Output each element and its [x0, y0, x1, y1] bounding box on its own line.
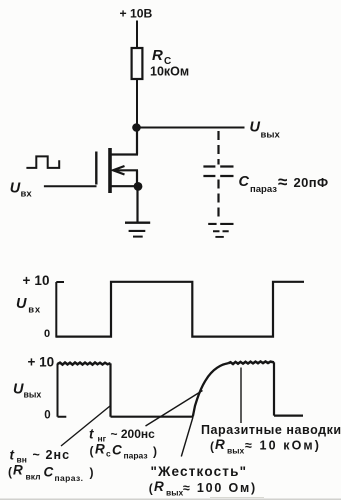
- svg-text:+ 10: + 10: [23, 273, 50, 288]
- svg-text:"Жесткость": "Жесткость": [151, 464, 248, 479]
- svg-text:параз.: параз.: [55, 473, 84, 483]
- svg-text:вх: вх: [21, 189, 33, 200]
- svg-text:параз: параз: [250, 184, 277, 195]
- svg-text:~ 2нс: ~ 2нс: [33, 448, 71, 462]
- svg-text:≈ 10 кОм): ≈ 10 кОм): [245, 439, 321, 453]
- svg-text:U: U: [16, 296, 27, 312]
- svg-text:вкл: вкл: [26, 472, 41, 482]
- svg-text:R: R: [152, 47, 163, 64]
- svg-text:R: R: [95, 442, 105, 457]
- svg-text:≈: ≈: [278, 173, 287, 192]
- svg-text:C: C: [112, 443, 122, 458]
- svg-text:вых: вых: [261, 130, 281, 141]
- svg-text:): ): [90, 466, 94, 480]
- svg-text:t: t: [89, 427, 94, 442]
- svg-text:(: (: [90, 444, 94, 458]
- svg-text:вых: вых: [166, 488, 183, 498]
- svg-text:U: U: [10, 181, 21, 197]
- svg-text:): ): [153, 445, 157, 459]
- svg-text:вых: вых: [227, 446, 244, 456]
- svg-text:U: U: [13, 382, 24, 398]
- svg-text:≈ 100 Ом): ≈ 100 Ом): [183, 481, 257, 495]
- svg-text:(: (: [8, 465, 12, 479]
- svg-text:вх: вх: [28, 304, 41, 315]
- svg-text:R: R: [154, 479, 164, 494]
- svg-text:(: (: [210, 440, 214, 454]
- svg-text:параз: параз: [124, 451, 148, 461]
- svg-text:t: t: [10, 448, 15, 463]
- svg-text:0: 0: [44, 328, 50, 340]
- svg-text:0: 0: [44, 410, 50, 422]
- svg-text:10кОм: 10кОм: [150, 65, 189, 79]
- svg-text:вых: вых: [24, 390, 42, 400]
- svg-text:~ 200нс: ~ 200нс: [111, 427, 156, 441]
- svg-text:(: (: [149, 482, 153, 496]
- svg-text:+ 10В: + 10В: [120, 7, 153, 21]
- svg-text:U: U: [250, 120, 261, 136]
- svg-text:20пФ: 20пФ: [294, 175, 329, 190]
- svg-text:с: с: [106, 449, 111, 459]
- svg-text:C: C: [239, 174, 250, 190]
- svg-text:R: R: [13, 463, 23, 478]
- svg-text:C: C: [44, 465, 54, 480]
- svg-text:Паразитные наводки: Паразитные наводки: [201, 423, 341, 437]
- svg-text:+ 10: + 10: [28, 355, 55, 370]
- svg-text:R: R: [215, 437, 225, 452]
